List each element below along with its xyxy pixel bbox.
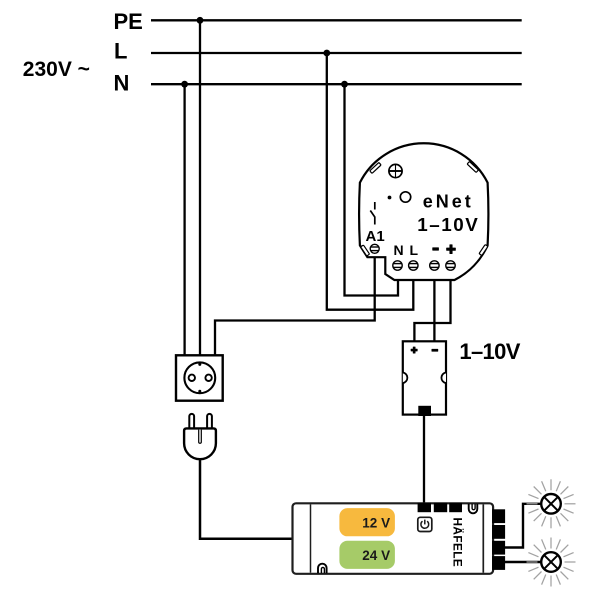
wire N drop to socket [183, 84, 185, 356]
driver screw top right [469, 504, 478, 513]
wire N drop to eNet N terminal [345, 84, 399, 295]
svg-text:230V ~: 230V ~ [23, 58, 90, 81]
terminal screw plus [446, 261, 455, 270]
svg-text:L: L [114, 39, 127, 64]
label minus on block [432, 349, 439, 352]
driver power button [418, 517, 432, 531]
svg-text:1–10V: 1–10V [417, 214, 478, 235]
node N junction right [341, 81, 348, 88]
claw slot SW [361, 245, 370, 256]
svg-text:24 V: 24 V [362, 548, 390, 563]
notch right on block [441, 373, 446, 384]
indicator dot [388, 196, 392, 200]
wire driver to lamp2 [505, 561, 542, 563]
svg-text:A1: A1 [366, 228, 385, 245]
driver box [293, 503, 494, 574]
plug divider [199, 430, 202, 444]
driver 12V badge [339, 508, 395, 536]
lamp 2 [527, 538, 576, 587]
block bottom connector [418, 406, 431, 416]
driver right cap line [482, 504, 484, 572]
svg-text:N: N [394, 242, 404, 258]
driver right connectors [492, 509, 505, 570]
node PE junction [197, 17, 204, 24]
screw cross top [389, 164, 402, 177]
wire L line [151, 52, 522, 54]
wire driver to lamp1 [505, 504, 541, 548]
label plus on block [411, 347, 418, 354]
wire plug cord to driver [200, 460, 293, 539]
converter 1-10V block [403, 341, 446, 414]
wire N line [151, 83, 522, 85]
node L junction [323, 50, 330, 57]
claw slot SE [479, 244, 488, 255]
svg-text:N: N [114, 71, 130, 96]
svg-text:1–10V: 1–10V [459, 339, 520, 364]
claw slot NE [467, 162, 478, 173]
wire block to driver dim input [423, 414, 425, 503]
svg-text:PE: PE [114, 9, 143, 34]
claw slot NW [370, 162, 381, 173]
driver top connectors [418, 503, 462, 512]
svg-text:L: L [410, 242, 419, 258]
wire L drop to eNet L terminal [327, 53, 414, 310]
driver screw bottom left [318, 564, 327, 574]
driver 24V badge [339, 541, 395, 569]
label plus terminal [446, 244, 456, 254]
op eNet device outline [359, 143, 488, 280]
wire PE drop to socket [199, 20, 201, 356]
terminal screw N [393, 261, 402, 270]
lamp 1 [527, 479, 576, 528]
terminal screw minus [430, 261, 439, 270]
wire eNet plus to block [414, 279, 450, 342]
plug pins [189, 414, 212, 429]
socket outlet [176, 355, 223, 400]
indicator circle [400, 192, 410, 202]
svg-text:12 V: 12 V [362, 515, 390, 530]
terminal screw L [409, 261, 418, 270]
label minus terminal [432, 247, 439, 250]
wire A1 to socket [215, 256, 375, 356]
node N junction left [181, 81, 188, 88]
notch left on block [403, 373, 408, 384]
switch symbol [370, 202, 375, 225]
plug body [184, 428, 216, 459]
wire eNet minus to block [433, 279, 435, 342]
wire PE line [151, 19, 522, 21]
terminal screw A1 [370, 244, 379, 253]
driver left cap line [310, 504, 312, 572]
svg-text:HÄFELE: HÄFELE [451, 518, 465, 568]
